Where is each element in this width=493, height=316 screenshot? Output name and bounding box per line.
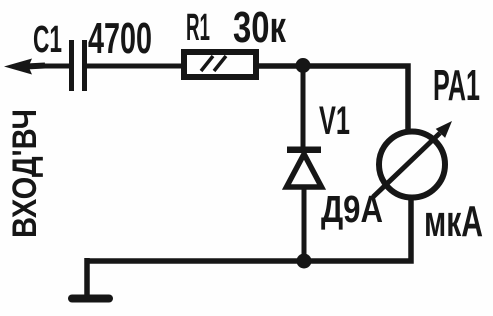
node junction bottom (297, 254, 312, 269)
svg-text:30к: 30к (233, 3, 287, 52)
wire (87, 200, 411, 261)
wire (301, 65, 306, 148)
svg-text:C1: C1 (33, 19, 62, 61)
wire (28, 64, 69, 69)
wire (302, 187, 307, 258)
input terminal arrow (4, 59, 45, 75)
wire (87, 64, 184, 69)
svg-text:R1: R1 (186, 7, 210, 49)
diode V1 (287, 147, 322, 188)
svg-text:мкА: мкА (424, 197, 483, 246)
wire (84, 258, 90, 295)
svg-text:V1: V1 (319, 99, 350, 143)
svg-text:4700: 4700 (88, 14, 152, 63)
svg-text:ВХОД'ВЧ: ВХОД'ВЧ (6, 109, 44, 238)
meter PA1 (373, 121, 452, 198)
node junction top (296, 58, 311, 73)
resistor R1 (184, 52, 256, 77)
svg-text:PA1: PA1 (433, 61, 480, 110)
ground (72, 295, 109, 303)
capacitor C1 (69, 40, 87, 91)
wire (256, 66, 408, 129)
